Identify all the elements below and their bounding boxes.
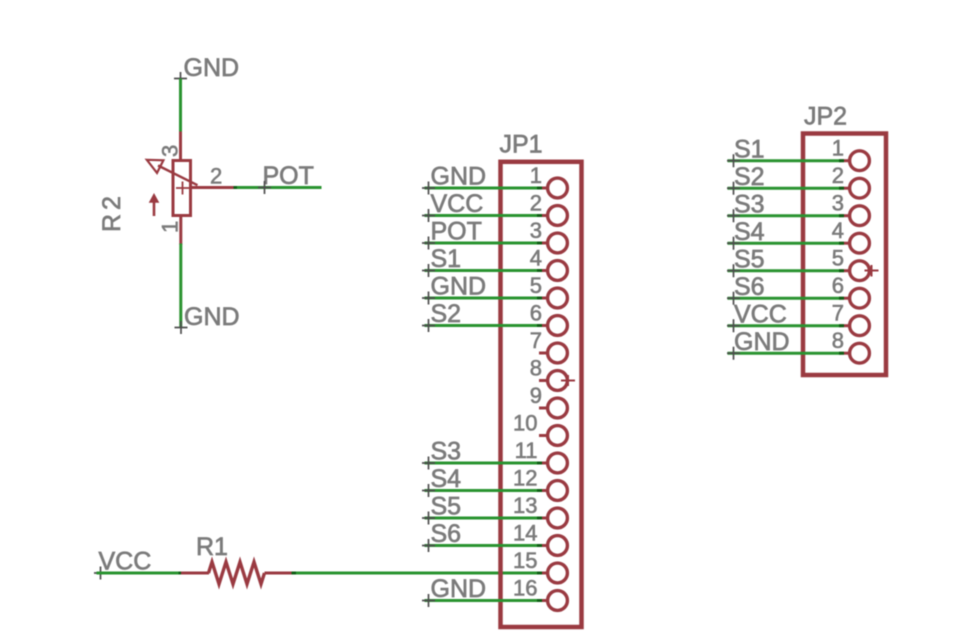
pin number 13 (JP1) (513, 493, 537, 518)
connector JP1 (501, 162, 582, 627)
pin 5 (JP2) (841, 261, 869, 281)
junction JP2 pin 7 (839, 324, 844, 327)
pin number 3 (JP2) (832, 191, 844, 216)
svg-text:S1: S1 (734, 136, 765, 164)
pin 6 (JP1) (539, 316, 567, 336)
node GND label (JP1 pin 16) (422, 575, 486, 607)
pin number 1 (R2) (158, 221, 183, 233)
svg-text:JP1: JP1 (500, 131, 543, 159)
pin 11 (JP1) (539, 453, 567, 473)
pin number 2 (JP1) (530, 191, 542, 216)
svg-text:4: 4 (832, 218, 844, 243)
junction JP2 pin 1 (839, 159, 844, 162)
pin number 6 (JP1) (530, 301, 542, 326)
wire net S3 to JP2 pin 3 (728, 214, 842, 217)
svg-text:5: 5 (832, 246, 844, 271)
svg-text:S1: S1 (431, 245, 462, 273)
pin number 9 (JP1) (530, 383, 542, 408)
pin 7 (JP2) (841, 316, 869, 336)
svg-text:7: 7 (530, 328, 542, 353)
pin 1 (JP2) (841, 151, 869, 171)
svg-text:10: 10 (513, 411, 537, 436)
svg-text:16: 16 (513, 576, 537, 601)
svg-text:1: 1 (158, 221, 183, 233)
node S4 label (JP1 pin 12) (422, 465, 461, 497)
pin 15 (JP1) (539, 563, 567, 583)
svg-text:S2: S2 (431, 300, 462, 328)
junction JP1 pin 6 (537, 324, 542, 327)
pin number 12 (JP1) (513, 466, 537, 491)
svg-text:11: 11 (515, 438, 538, 463)
junction JP1 pin 15 (537, 572, 542, 575)
wire net S1 to JP1 pin 4 (425, 269, 540, 272)
pin 3 (JP1) (539, 233, 567, 253)
wire net GND to JP1 pin 5 (425, 297, 540, 300)
pin number 1 (JP2) (832, 136, 844, 161)
svg-text:S6: S6 (431, 520, 462, 548)
wire net GND to JP1 pin 1 (425, 187, 540, 190)
wire net GND to JP2 pin 8 (728, 352, 842, 355)
junction JP1 pin 16 (537, 599, 542, 602)
node S2 label (JP1 pin 6) (422, 300, 461, 332)
wire net S2 to JP1 pin 6 (425, 324, 540, 327)
junction JP1 pin 3 (537, 242, 542, 245)
potentiometer R2 (147, 132, 237, 245)
node S6 label (JP2 pin 6) (727, 273, 765, 305)
junction JP1 pin 2 (537, 214, 542, 217)
pin number 16 (JP1) (513, 576, 537, 601)
wire net VCC to JP1 pin 2 (425, 214, 540, 217)
junction JP2 pin 2 (839, 187, 844, 190)
node S1 label (JP2 pin 1) (727, 136, 765, 168)
svg-text:9: 9 (530, 383, 542, 408)
svg-text:R2: R2 (98, 192, 126, 232)
pin 5 (JP1) (539, 288, 567, 308)
svg-text:14: 14 (513, 521, 537, 546)
node S2 label (JP2 pin 2) (727, 163, 765, 195)
origin cross JP1 (561, 375, 575, 386)
pin 4 (JP2) (841, 233, 869, 253)
svg-text:GND: GND (184, 303, 240, 331)
node S5 label (JP1 pin 13) (422, 493, 461, 525)
node GND label (JP1 pin 1) (422, 163, 486, 195)
node VCC (94, 548, 151, 580)
wire net S1 to JP2 pin 1 (728, 159, 842, 162)
junction JP1 pin 4 (537, 269, 542, 272)
wire net S2 to JP2 pin 2 (728, 187, 842, 190)
wire net S5 to JP2 pin 5 (728, 269, 842, 272)
pin number 11 (JP1) (515, 438, 538, 463)
svg-text:8: 8 (832, 328, 844, 353)
svg-text:S3: S3 (431, 438, 462, 466)
wire net GND to JP1 pin 16 (425, 599, 540, 602)
svg-text:3: 3 (158, 145, 183, 157)
connector JP2 (803, 134, 886, 376)
junction VCC wire / R1 left lead (179, 572, 184, 575)
svg-text:GND: GND (431, 163, 487, 191)
junction JP1 pin 13 (537, 517, 542, 520)
svg-text:6: 6 (832, 273, 844, 298)
wire GND to R2 pin 3 (179, 79, 182, 134)
pin number 8 (JP2) (832, 328, 844, 353)
junction JP2 pin 3 (839, 214, 844, 217)
pin 2 (JP2) (841, 178, 869, 198)
node VCC label (JP2 pin 7) (727, 301, 787, 333)
pin number 5 (JP2) (832, 246, 844, 271)
node S4 label (JP2 pin 4) (727, 218, 765, 250)
svg-text:13: 13 (513, 493, 537, 518)
svg-text:8: 8 (530, 356, 542, 381)
wire net S6 to JP1 pin 14 (425, 544, 540, 547)
svg-text:4: 4 (530, 246, 542, 271)
origin cross JP2 (865, 265, 879, 277)
svg-text:S5: S5 (431, 493, 462, 521)
junction JP1 pin 1 (537, 187, 542, 190)
svg-text:2: 2 (832, 163, 844, 188)
svg-text:2: 2 (530, 191, 542, 216)
svg-text:S3: S3 (734, 191, 765, 219)
node VCC label (JP1 pin 2) (422, 190, 483, 222)
pin number 7 (JP2) (832, 301, 844, 326)
pin 3 (JP2) (841, 206, 869, 226)
svg-text:VCC: VCC (431, 190, 484, 218)
node S3 label (JP1 pin 11) (422, 438, 461, 470)
label R1 (196, 533, 228, 561)
svg-text:POT: POT (431, 218, 482, 246)
label JP2 (804, 103, 847, 131)
svg-text:R1: R1 (196, 533, 228, 561)
pin number 4 (JP2) (832, 218, 844, 243)
pin 12 (JP1) (539, 481, 567, 501)
pin 8 (JP1) (539, 371, 567, 391)
pin 4 (JP1) (539, 261, 567, 281)
node S3 label (JP2 pin 3) (727, 191, 765, 223)
svg-text:S4: S4 (431, 465, 462, 493)
node S1 label (JP1 pin 4) (422, 245, 461, 277)
pin number 3 (R2) (158, 145, 183, 157)
node S5 label (JP2 pin 5) (727, 246, 765, 278)
svg-text:12: 12 (513, 466, 537, 491)
pin 1 (JP1) (539, 178, 567, 198)
wire net S4 to JP2 pin 4 (728, 242, 842, 245)
svg-text:7: 7 (832, 301, 844, 326)
svg-text:POT: POT (263, 162, 314, 190)
svg-text:GND: GND (184, 54, 240, 82)
junction R1 right lead / net (292, 572, 298, 575)
svg-text:1: 1 (832, 136, 844, 161)
svg-text:S4: S4 (734, 218, 765, 246)
pin 6 (JP2) (841, 288, 869, 308)
wire net S5 to JP1 pin 13 (425, 517, 540, 520)
pin 8 (JP2) (841, 343, 869, 363)
junction JP2 pin 6 (839, 297, 844, 300)
wire net S6 to JP2 pin 6 (728, 297, 842, 300)
pin 7 (JP1) (539, 343, 567, 363)
pin number 14 (JP1) (513, 521, 537, 546)
svg-text:15: 15 (513, 548, 537, 573)
junction JP1 pin 12 (537, 489, 542, 492)
pin number 2 (R2) (210, 164, 222, 189)
svg-text:GND: GND (431, 575, 487, 603)
node GND label (JP2 pin 8) (727, 328, 790, 360)
node GND (top of R2) (174, 54, 239, 85)
wire VCC to R1 (97, 572, 182, 575)
node GND (bottom of R2) (175, 303, 240, 334)
pin number 5 (JP1) (530, 273, 542, 298)
wire net S3 to JP1 pin 11 (425, 462, 540, 465)
svg-text:GND: GND (734, 328, 790, 356)
junction JP2 pin 8 (839, 352, 844, 355)
pin 13 (JP1) (539, 508, 567, 528)
wire net VCC to JP2 pin 7 (728, 324, 842, 327)
svg-text:5: 5 (530, 273, 542, 298)
wire net POT to JP1 pin 3 (425, 242, 540, 245)
svg-text:JP2: JP2 (804, 103, 847, 131)
pin 16 (JP1) (539, 591, 567, 611)
pin number 2 (JP2) (832, 163, 844, 188)
wire net POT (237, 186, 322, 189)
junction JP1 pin 11 (537, 462, 542, 465)
wire R1 to JP1 pin 15 (296, 572, 539, 575)
pin number 8 (JP1) (530, 356, 542, 381)
label R2 (98, 192, 126, 232)
node POT label (JP1 pin 3) (422, 218, 482, 250)
junction JP2 pin 5 (839, 269, 844, 272)
resistor R1 (181, 562, 294, 584)
svg-text:3: 3 (832, 191, 844, 216)
junction JP1 pin 5 (537, 297, 542, 300)
pin number 7 (JP1) (530, 328, 542, 353)
svg-text:2: 2 (210, 164, 222, 189)
pin 14 (JP1) (539, 536, 567, 556)
svg-text:6: 6 (530, 301, 542, 326)
svg-text:1: 1 (530, 163, 542, 188)
pin number 3 (JP1) (530, 218, 542, 243)
svg-text:GND: GND (431, 273, 487, 301)
pin number 15 (JP1) (513, 548, 537, 573)
junction JP2 pin 4 (839, 242, 844, 245)
pin 10 (JP1) (539, 426, 567, 446)
svg-text:S6: S6 (734, 273, 765, 301)
label JP1 (500, 131, 543, 159)
pin number 6 (JP2) (832, 273, 844, 298)
pin 2 (JP1) (539, 206, 567, 226)
pin number 4 (JP1) (530, 246, 542, 271)
node S6 label (JP1 pin 14) (422, 520, 461, 552)
svg-text:S2: S2 (734, 163, 765, 191)
wire net S4 to JP1 pin 12 (425, 489, 540, 492)
junction R2 pin2 to net (234, 186, 239, 189)
node GND label (JP1 pin 5) (422, 273, 486, 305)
pin number 1 (JP1) (530, 163, 542, 188)
svg-text:VCC: VCC (734, 301, 787, 329)
svg-text:S5: S5 (734, 246, 765, 274)
pin number 10 (JP1) (513, 411, 537, 436)
pin 9 (JP1) (539, 398, 567, 418)
junction JP1 pin 14 (537, 544, 542, 547)
svg-text:3: 3 (530, 218, 542, 243)
node POT label (258, 162, 314, 194)
svg-text:VCC: VCC (99, 548, 152, 576)
wire R2 pin1 to GND (179, 244, 182, 328)
